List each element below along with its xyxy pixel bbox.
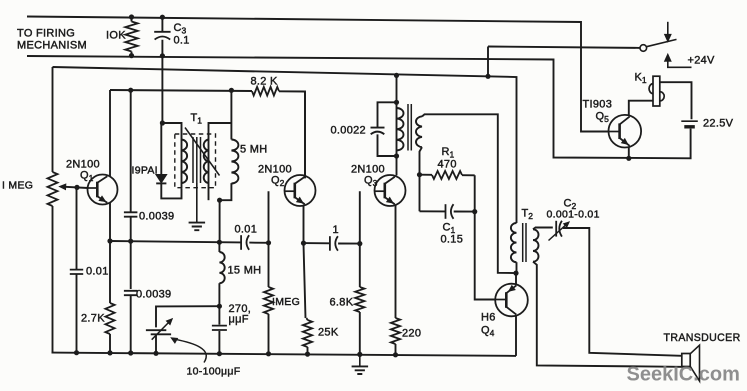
capacitor 0.0022 xyxy=(378,102,397,127)
wire Q4 collector xyxy=(515,273,517,284)
capacitor 0.01 coupling xyxy=(240,235,242,250)
svg-text:5 MH: 5 MH xyxy=(240,144,267,156)
switch contact xyxy=(640,45,647,52)
T1 variable core diagonal xyxy=(185,128,220,176)
inductor T1 left winding xyxy=(181,140,183,189)
node switch feed rail3 junction xyxy=(485,74,490,79)
node rail1-10K junction xyxy=(129,14,134,19)
wire switch rail xyxy=(488,47,640,48)
svg-text:0.01: 0.01 xyxy=(235,224,258,236)
transistor Q5 TI903 xyxy=(609,115,642,148)
resistor 2.7K xyxy=(105,303,114,334)
capacitor 270uuF xyxy=(218,306,220,324)
node 1MEG bottom junction xyxy=(266,351,271,356)
inductor T2 secondary xyxy=(533,229,539,261)
svg-text:8.2 K: 8.2 K xyxy=(251,76,279,88)
svg-text:MECHANISM: MECHANISM xyxy=(17,40,87,52)
ground T1 core xyxy=(196,183,198,223)
node rail2-C3 junction xyxy=(160,53,165,58)
node 2.7K bottom junction xyxy=(107,350,112,355)
node Q1 emitter mid-rail junction xyxy=(107,238,112,243)
ground main xyxy=(359,354,361,366)
wire Q2 collector xyxy=(304,92,306,176)
svg-text:0.001-0.01: 0.001-0.01 xyxy=(547,209,600,221)
node C3-T1 junction xyxy=(160,120,165,125)
wire rail4 with 8.2K xyxy=(110,90,252,91)
wire R1 right down to Q4 base xyxy=(475,175,496,299)
svg-text:+24V: +24V xyxy=(688,55,716,67)
node R1 left junction xyxy=(417,172,422,177)
wire to variable capacitor xyxy=(156,306,219,327)
relay K1 coil xyxy=(653,76,660,106)
wire T1 bottom to mid rail xyxy=(219,200,221,242)
wire relay to battery xyxy=(660,82,692,119)
svg-text:I MEG: I MEG xyxy=(2,180,33,192)
svg-text:0.1: 0.1 xyxy=(174,35,190,47)
wire rail2 (to firing mechanism lower) + right drop + Q5 emitter rail + battery bottom riser xyxy=(27,56,691,158)
inductor tank primary xyxy=(397,108,404,150)
T1 shield dashed box xyxy=(175,134,216,188)
svg-text:I9PAI: I9PAI xyxy=(132,165,158,177)
capacitor 0.0039 lower xyxy=(124,291,137,295)
wire Q4 emitter to bottom rail xyxy=(515,316,517,356)
capacitor 1 xyxy=(329,236,331,251)
node 6.8K bottom junction xyxy=(357,352,362,357)
wire Q2 emitter xyxy=(304,205,306,318)
svg-text:H6: H6 xyxy=(481,312,496,324)
node 15MH bottom junction xyxy=(217,304,222,309)
wire Q5 emitter xyxy=(628,147,630,159)
svg-text:0.01: 0.01 xyxy=(86,266,109,278)
node Q5 emitter rail junction xyxy=(626,156,631,161)
wire T2 secondary top to C2 xyxy=(533,228,553,230)
wire Q1 collector xyxy=(109,90,111,177)
node T2 primary bottom junction xyxy=(513,271,518,276)
svg-text:220: 220 xyxy=(402,328,421,340)
svg-text:15 MH: 15 MH xyxy=(228,265,262,277)
capacitor C1 0.15 xyxy=(420,210,446,212)
potentiometer 1 MEG xyxy=(52,67,54,172)
wire rail3 long wire to T2 primary top xyxy=(53,67,517,223)
svg-text:SeekIC.com: SeekIC.com xyxy=(627,364,740,386)
resistor 1MEG bias xyxy=(268,243,270,287)
transistor Q4 H6 xyxy=(495,284,528,317)
wire T1 primary top xyxy=(162,123,181,140)
inductor 5MH outer winding xyxy=(230,90,232,139)
resistor 220 xyxy=(391,318,400,344)
svg-text:10-100μμF: 10-100μμF xyxy=(187,366,241,378)
T2 core lines xyxy=(523,223,526,262)
switch actuation arrow xyxy=(667,22,669,36)
node Q3 base mid junction xyxy=(357,241,362,246)
resistor 6.8K xyxy=(359,244,361,287)
node tank top junction xyxy=(394,100,399,105)
node 270uuF bottom junction xyxy=(217,351,222,356)
wire mid rail to Q2 base xyxy=(249,191,268,243)
T1 core lines xyxy=(193,137,201,183)
+24V supply arrow xyxy=(664,54,671,62)
wire switch feed xyxy=(487,47,489,77)
svg-text:IOK: IOK xyxy=(106,30,126,42)
wire cap 1 to Q3 base xyxy=(338,191,360,243)
resistor 10K xyxy=(131,17,133,22)
battery 22.5V xyxy=(681,120,698,122)
node 0.0039 bottom junction xyxy=(128,350,133,355)
svg-text:0.15: 0.15 xyxy=(441,234,464,246)
wire C2 to transducer top xyxy=(563,228,682,356)
svg-text:TI903: TI903 xyxy=(583,99,613,111)
svg-text:TO FIRING: TO FIRING xyxy=(17,28,75,40)
wire tank vertical Q3 collector xyxy=(396,75,398,175)
node 220 bottom junction xyxy=(393,352,398,357)
node rail4-5MH junction xyxy=(229,88,234,93)
capacitor C3 0.1 xyxy=(161,17,163,31)
wire tank secondary top to Q4 collector node xyxy=(422,114,516,273)
node rail2-10K junction xyxy=(129,53,134,58)
capacitor 0.01 left xyxy=(76,187,78,269)
svg-text:0.0022: 0.0022 xyxy=(331,125,366,137)
node Q1 base junction xyxy=(74,185,79,190)
svg-text:IMEG: IMEG xyxy=(272,296,300,308)
transistor Q3 2N100 xyxy=(375,175,406,206)
node Q2 emitter mid junction xyxy=(301,241,306,246)
node tank bottom junction xyxy=(394,153,399,158)
node rail1-C3 junction xyxy=(160,15,165,20)
inductor T2 primary xyxy=(511,223,517,262)
resistor R1 470 xyxy=(420,174,433,176)
node variable cap bottom junction xyxy=(153,351,158,356)
svg-text:TRANSDUCER: TRANSDUCER xyxy=(664,332,741,344)
svg-text:25K: 25K xyxy=(318,327,339,339)
svg-text:1: 1 xyxy=(333,224,339,236)
svg-text:22.5V: 22.5V xyxy=(703,118,734,130)
diode 19PA1 xyxy=(160,123,162,174)
wire Q1 base to pot wiper with arrow xyxy=(61,187,88,188)
svg-text:2.7K: 2.7K xyxy=(81,313,105,325)
svg-text:μμF: μμF xyxy=(229,314,249,326)
inductor 15 MH xyxy=(218,242,220,252)
node mid rail 15MH junction xyxy=(217,240,222,245)
node 25K bottom junction xyxy=(305,352,310,357)
wire bottom rail xyxy=(52,353,517,356)
wire rail1 top (to firing mechanism upper) + Q5 base feed xyxy=(27,17,609,132)
node C1 right junction xyxy=(472,209,477,214)
tank transformer core xyxy=(408,104,411,151)
label leader 10-100uuF xyxy=(175,339,207,362)
node Q2 base mid junction xyxy=(266,240,271,245)
inductor T1 inner winding xyxy=(208,140,210,201)
node rail4-0.0039 junction xyxy=(128,88,133,93)
wire Q3 emitter xyxy=(395,205,397,318)
svg-text:6.8K: 6.8K xyxy=(330,297,354,309)
svg-text:470: 470 xyxy=(438,159,457,171)
transistor Q2 2N100 xyxy=(285,175,316,206)
node 0.0039 mid-rail junction xyxy=(128,239,133,244)
capacitor 0.0039 upper xyxy=(130,90,132,212)
wire Q2 emitter to cap 1 xyxy=(304,242,330,244)
wire Q1 emitter to 2.7K xyxy=(109,202,111,303)
wire Q5 collector to relay xyxy=(629,101,653,116)
transistor Q1 2N100 xyxy=(88,175,118,205)
node T1 bottom junction xyxy=(217,198,222,203)
capacitor variable 10-100uuF xyxy=(146,330,171,334)
wire T2 secondary bottom to transducer xyxy=(533,262,690,367)
wire mid rail left segment xyxy=(110,241,241,242)
inductor tank secondary xyxy=(416,116,422,147)
wire T1 secondary inner top xyxy=(209,123,232,140)
node 0.01 bottom junction xyxy=(74,350,79,355)
capacitor C2 0.001-0.01 xyxy=(555,221,557,237)
transducer speaker xyxy=(682,354,690,367)
node tank rail3 junction xyxy=(394,73,399,78)
svg-text:0.0039: 0.0039 xyxy=(136,289,171,301)
wire tank secondary bottom xyxy=(420,147,423,211)
svg-text:0.0039: 0.0039 xyxy=(139,211,174,223)
resistor 25K xyxy=(303,320,312,347)
